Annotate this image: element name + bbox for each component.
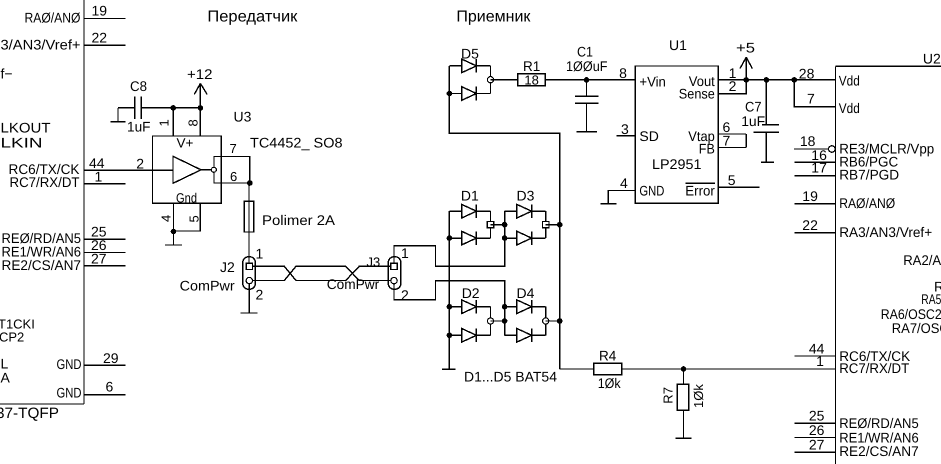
power +5 symbol — [736, 39, 755, 80]
svg-text:26: 26 — [809, 422, 825, 438]
left pin 22 RA3/AN3/Vref+ — [1, 29, 126, 52]
U2 pin 19 RA0/AN0 — [794, 188, 895, 211]
svg-text:2: 2 — [136, 156, 144, 172]
junction U3 gnd pins — [171, 229, 177, 235]
svg-text:27: 27 — [91, 250, 107, 266]
svg-text:GND: GND — [57, 385, 82, 401]
wire D2 output to D4 rail — [491, 320, 505, 322]
U2 pin 17 RB7/PGD — [794, 160, 899, 183]
svg-text:1: 1 — [95, 168, 103, 184]
connector J2 — [243, 257, 256, 290]
wire left bus D1 to D2 to ground — [448, 238, 450, 368]
junction D2 left rail top — [447, 304, 453, 310]
svg-text:+Vin: +Vin — [639, 74, 666, 90]
svg-text:GND: GND — [57, 356, 82, 372]
svg-text:5: 5 — [728, 172, 736, 188]
junction D1 left rail bottom — [447, 235, 453, 241]
fuse F1 Polimer 2A — [244, 201, 336, 232]
svg-text:SD: SD — [639, 128, 658, 144]
left pin 26 RE1/WR/AN6 — [2, 237, 126, 259]
svg-text:RC7/RX/DT: RC7/RX/DT — [839, 360, 909, 376]
svg-text:19: 19 — [92, 3, 108, 19]
wire R7 top lead — [683, 369, 685, 384]
svg-text:D2: D2 — [462, 285, 480, 301]
svg-text:U1: U1 — [669, 37, 687, 53]
junction C8 rail / U3 pin1 — [170, 105, 176, 111]
diode D3 BAT54 dual — [505, 188, 549, 245]
svg-text:Приемник: Приемник — [456, 8, 531, 25]
svg-text:R7: R7 — [661, 387, 676, 404]
svg-text:Gnd: Gnd — [176, 191, 197, 206]
op-amp U3 TC4452 body — [153, 136, 222, 206]
wire C8 left lead — [118, 107, 135, 109]
diode D5 BAT54 dual — [449, 46, 493, 101]
svg-text:4: 4 — [620, 175, 628, 191]
wire bus to R4 — [560, 368, 594, 370]
left pin 6 GND — [57, 379, 126, 401]
wire C8 to +12 rail — [141, 107, 200, 109]
svg-text:1: 1 — [816, 353, 824, 369]
capacitor C1 100uF — [566, 43, 608, 131]
wire J3 pin2 route to diode bridge — [394, 281, 505, 307]
wire U3 output pins 7/6 loop — [201, 157, 250, 184]
svg-text:1uF: 1uF — [127, 119, 151, 135]
wire R7 bottom lead — [683, 410, 685, 438]
svg-text:28: 28 — [799, 66, 815, 82]
wire twisted pair line A — [253, 266, 391, 280]
svg-text:6: 6 — [230, 169, 237, 184]
svg-text:3: 3 — [621, 121, 629, 137]
svg-text:Vdd: Vdd — [839, 100, 860, 116]
wire U3 pin1 V+ lead — [172, 108, 174, 136]
svg-text:Polimer 2A: Polimer 2A — [262, 212, 336, 228]
wire U3 pin5 gnd lead — [174, 203, 201, 231]
wire J2 pin2 to ground — [248, 284, 250, 313]
power +12 symbol — [187, 66, 213, 108]
svg-text:U3: U3 — [234, 109, 252, 125]
svg-text:Vdd: Vdd — [839, 73, 860, 89]
svg-text:7: 7 — [723, 132, 731, 148]
left pin 44 RC6/TX/CK wire to U3 input — [9, 155, 174, 177]
svg-text:U2: U2 — [923, 51, 941, 67]
wire R1 to U1 +Vin — [545, 79, 635, 81]
wire D5 left rail down to bus — [449, 94, 559, 226]
svg-text:D5: D5 — [461, 46, 479, 62]
wire twisted pair line B — [253, 266, 391, 280]
svg-text:1ØØuF: 1ØØuF — [566, 58, 608, 74]
junction +5 / Sense — [743, 77, 749, 83]
svg-text:2: 2 — [256, 287, 264, 303]
svg-text:1uF: 1uF — [741, 113, 765, 129]
svg-text:1: 1 — [157, 119, 172, 126]
svg-text:RA3/AN3/Vref+: RA3/AN3/Vref+ — [839, 224, 932, 240]
svg-text:7: 7 — [807, 91, 815, 107]
left pin 29 GND — [57, 350, 126, 372]
resistor R1 value 18 — [518, 58, 546, 87]
svg-text:A: A — [1, 370, 11, 386]
wire J3 pin1 route to diode bridge — [394, 238, 505, 266]
svg-text:22: 22 — [92, 29, 108, 45]
junction D2 left rail bottom — [447, 333, 453, 339]
svg-text:19: 19 — [802, 188, 818, 204]
U2 pin 22 RA3/AN3/Vref+ — [794, 217, 932, 240]
wire fuse to J2 pin1 — [248, 232, 250, 263]
wire D3 output to right bus — [546, 224, 560, 226]
ground at C7 — [761, 161, 774, 163]
svg-text:GND: GND — [639, 183, 664, 199]
U2 pin 44 RC6/TX/CK — [795, 341, 911, 365]
svg-text:18: 18 — [524, 72, 538, 87]
U1 pin 3 SD stub — [617, 121, 636, 137]
svg-text:8: 8 — [619, 65, 627, 81]
svg-text:3/AN3/Vref+: 3/AN3/Vref+ — [1, 36, 81, 52]
U1 pin 4 GND wire — [608, 175, 635, 204]
junction D1 output at D3 rail — [502, 222, 508, 228]
junction D4 output at bus — [557, 318, 563, 324]
ground at C8 — [117, 108, 119, 122]
svg-text:37-TQFP: 37-TQFP — [0, 405, 59, 422]
diode D2 BAT54 dual — [449, 285, 493, 342]
svg-text:RC7/RX/DT: RC7/RX/DT — [10, 174, 80, 190]
svg-text:D1: D1 — [461, 188, 479, 204]
diode D4 BAT54 dual — [505, 285, 549, 342]
capacitor C7 1uF — [741, 80, 779, 162]
left pin 1 RC7/RX/DT — [10, 168, 126, 190]
svg-text:RAØ/ANØ: RAØ/ANØ — [25, 10, 81, 26]
left pin 19 RA0/AN0 — [25, 3, 126, 26]
resistor R4 value 10k — [594, 347, 622, 391]
junction R4/R7 — [681, 366, 687, 372]
svg-text:RA5: RA5 — [921, 291, 941, 307]
svg-text:V+: V+ — [177, 136, 194, 151]
svg-text:RE2/CS/AN7: RE2/CS/AN7 — [839, 443, 919, 459]
U2 pin 7 Vdd wire — [794, 80, 860, 116]
junction C7 tap — [764, 77, 770, 83]
resistor R7 value 10k — [677, 384, 689, 410]
U1 pin 7 FB wire — [718, 132, 746, 148]
U2 pin 27 RE2/CS/AN7 — [795, 437, 919, 460]
svg-text:f−: f− — [1, 66, 13, 82]
svg-text:RA2/A: RA2/A — [903, 252, 941, 268]
junction +12 / U3 pin8 — [198, 105, 204, 111]
junction D2 output at D4 rail — [502, 318, 508, 324]
svg-text:Sense: Sense — [679, 86, 715, 102]
svg-text:RA7/OSC: RA7/OSC — [892, 320, 941, 336]
connector J3 — [388, 257, 401, 290]
junction U3 output to fuse — [247, 180, 253, 186]
svg-text:7: 7 — [230, 141, 237, 156]
ground at diode bridge — [442, 368, 455, 370]
ground at U1 pin4 — [600, 203, 616, 205]
left pin 25 RE0/RD/AN5 — [2, 224, 126, 246]
junction D5 left rail — [447, 91, 453, 97]
svg-text:4: 4 — [159, 215, 174, 222]
svg-text:R4: R4 — [599, 347, 616, 363]
svg-text:ComPwr: ComPwr — [180, 278, 235, 294]
U2 pin 25 RE0/RD/AN5 — [795, 408, 919, 431]
svg-text:CP2: CP2 — [0, 330, 24, 345]
U1 pin 6 Vtap wire — [718, 119, 746, 135]
junction D4 rail top — [502, 304, 508, 310]
capacitor C8 — [127, 78, 151, 135]
svg-text:D1...D5 BAT54: D1...D5 BAT54 — [464, 369, 557, 385]
wire U3 pin4 gnd lead — [173, 203, 175, 231]
svg-text:RB7/PGD: RB7/PGD — [839, 167, 899, 183]
U1 pin 2 Sense wire — [718, 78, 746, 94]
junction D3 output at bus — [557, 222, 563, 228]
junction Vdd pin7 branch — [792, 77, 798, 83]
svg-text:2: 2 — [729, 78, 737, 94]
svg-text:6: 6 — [106, 379, 114, 395]
wire right bus down to R4 — [559, 225, 561, 369]
svg-text:RAØ/ANØ: RAØ/ANØ — [839, 195, 895, 211]
U1 pin 1 Vout wire — [718, 65, 835, 81]
svg-text:1: 1 — [401, 245, 409, 261]
U2 pin 16 RB6/PGC — [794, 147, 898, 170]
wire D4 output to right bus — [546, 320, 560, 322]
U2 pin 26 RE1/WR/AN6 — [795, 422, 919, 445]
svg-text:J2: J2 — [220, 259, 235, 275]
U1 pin 5 Error stub — [718, 172, 759, 188]
U2 pin 18 RE3/MCLR/Vpp — [794, 133, 934, 157]
left pin 27 RE2/CS/AN7 — [2, 250, 126, 272]
svg-text:LP2951: LP2951 — [652, 156, 702, 172]
svg-text:C1: C1 — [577, 43, 593, 59]
wire D1 output to D3 rail — [491, 224, 505, 226]
svg-text:D3: D3 — [517, 188, 535, 204]
U3 output bubble — [211, 167, 216, 172]
ic U1 LP2951 body — [635, 66, 718, 203]
ic U2 PIC MCU body edge — [836, 66, 941, 464]
ic U-left PIC MCU body edge — [0, 0, 84, 404]
svg-text:C8: C8 — [130, 78, 147, 94]
svg-text:Передатчик: Передатчик — [207, 8, 298, 25]
U2 pin 28 Vdd — [799, 66, 860, 89]
svg-text:17: 17 — [811, 160, 827, 176]
junction C1 tap — [584, 77, 590, 83]
svg-text:J3: J3 — [367, 254, 381, 269]
diode D1 BAT54 dual — [449, 188, 493, 245]
svg-text:8: 8 — [186, 119, 201, 126]
ground at R7 — [676, 437, 692, 439]
wire R4 to U2 RC7 — [622, 368, 836, 370]
svg-text:Error: Error — [685, 183, 715, 199]
svg-text:RE2/CS/AN7: RE2/CS/AN7 — [2, 257, 82, 273]
svg-text:TC4452_ SO8: TC4452_ SO8 — [250, 134, 343, 150]
svg-text:LKIN: LKIN — [1, 135, 43, 151]
svg-text:29: 29 — [103, 350, 119, 366]
U2 pin 1 RC7/RX/DT label — [816, 353, 910, 376]
svg-text:1: 1 — [256, 246, 264, 262]
svg-text:LKOUT: LKOUT — [1, 119, 51, 135]
wire U3 pin8 V+ lead — [199, 108, 201, 136]
svg-text:ComPwr: ComPwr — [327, 276, 380, 292]
svg-text:22: 22 — [802, 217, 818, 233]
ground at J2 — [241, 312, 258, 314]
svg-text:+5: +5 — [736, 39, 755, 55]
svg-text:+12: +12 — [187, 66, 213, 82]
wire U3 output to fuse — [248, 183, 250, 201]
ground at U3 — [173, 232, 175, 246]
svg-text:FB: FB — [699, 141, 715, 157]
svg-text:27: 27 — [809, 437, 825, 453]
svg-text:2: 2 — [401, 287, 409, 303]
svg-text:5: 5 — [187, 215, 202, 222]
svg-text:1Øk: 1Øk — [691, 384, 706, 408]
svg-text:D4: D4 — [517, 285, 535, 301]
svg-text:1Øk: 1Øk — [598, 375, 622, 391]
junction D3 rail bottom — [502, 235, 508, 241]
wire D5 output to R1 — [491, 79, 518, 81]
ground at C1 — [577, 131, 598, 133]
